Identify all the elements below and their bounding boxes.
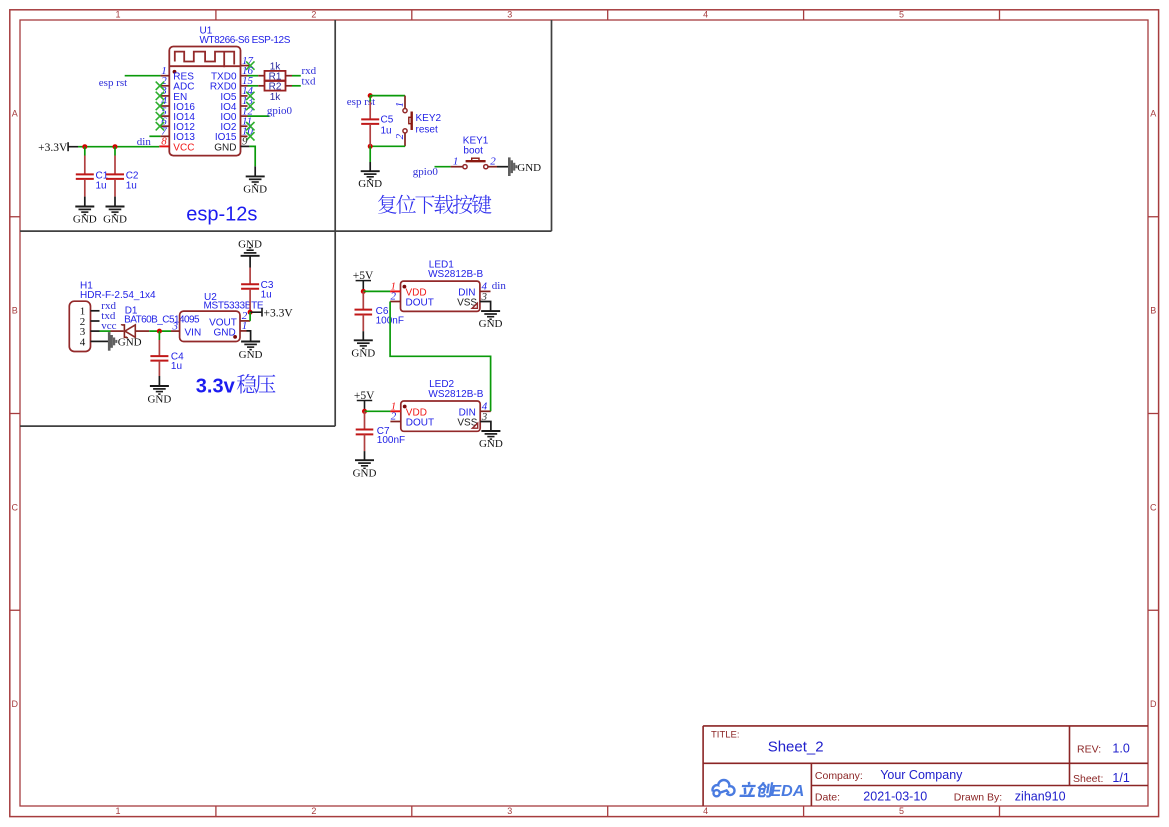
- U1 pin 13 IO4: [241, 105, 248, 107]
- H1 pin 3: [91, 330, 100, 332]
- svg-text:4: 4: [703, 806, 708, 816]
- section partition lines: [20, 20, 552, 426]
- resistor R1: [258, 75, 264, 77]
- power flag +3.3V at U2: [250, 311, 262, 313]
- junction at C1: [82, 144, 87, 149]
- wire gpio0 to KEY1: [435, 166, 451, 168]
- capacitor C7 100nF: [364, 411, 366, 429]
- U1 antenna baseline: [169, 65, 240, 67]
- U1 pin 1 marker dot: [173, 70, 177, 74]
- ground under C4: [150, 385, 169, 387]
- section title reset-download-keys (CJK): [378, 195, 397, 214]
- H1 pin 1: [91, 310, 100, 312]
- svg-text:GND: GND: [517, 162, 541, 174]
- svg-text:EDA: EDA: [771, 783, 805, 800]
- KEY1 pin1 lead: [451, 166, 463, 168]
- U1 pin 2 ADC: [160, 85, 169, 87]
- wire pin12 to gpio0: [248, 115, 270, 117]
- svg-text:5: 5: [899, 806, 904, 816]
- svg-text:GND: GND: [353, 467, 377, 479]
- svg-text:VCC: VCC: [173, 142, 194, 153]
- ground right of KEY1: [508, 157, 511, 176]
- svg-text:2: 2: [311, 806, 316, 816]
- svg-text:A: A: [1150, 109, 1156, 119]
- U1 chip body outline: [169, 47, 240, 156]
- svg-text:1u: 1u: [261, 290, 272, 301]
- wire LED1 VSS to ground: [480, 302, 491, 312]
- wire R1 to rxd: [292, 75, 301, 77]
- ground under C5: [361, 170, 380, 172]
- svg-text:esp rst: esp rst: [99, 77, 127, 89]
- frame row ticks left: [10, 216, 20, 218]
- wire +3.3V junction to VOUT: [249, 312, 251, 321]
- LED1 pin 2 DOUT: [390, 301, 400, 303]
- svg-text:D: D: [12, 699, 19, 709]
- capacitor C4 1u: [158, 340, 160, 356]
- svg-text:2: 2: [391, 291, 397, 303]
- svg-text:1u: 1u: [96, 181, 107, 192]
- svg-text:2: 2: [394, 133, 406, 139]
- svg-text:3.3v: 3.3v: [196, 375, 236, 397]
- svg-text:Date:: Date:: [815, 792, 840, 804]
- ground under C2: [106, 206, 125, 208]
- pushbutton KEY1 boot: [466, 160, 486, 162]
- U1 no-connect X pins 14,13,11,10: [246, 92, 254, 100]
- svg-text:2: 2: [311, 10, 316, 20]
- capacitor C5 1u: [369, 96, 371, 102]
- capacitor C1 1u: [84, 156, 86, 175]
- wire R2 to txd: [292, 85, 301, 87]
- U1 pin 4 IO16: [160, 105, 169, 107]
- U2 pin1 marker dot: [233, 335, 237, 339]
- svg-text:REV:: REV:: [1077, 744, 1101, 756]
- LED1 pin 1 VDD: [390, 290, 400, 292]
- wire +5V to LED1 VDD: [363, 290, 390, 292]
- LED1 pin1 marker dot: [403, 285, 407, 289]
- LED1 polarity triangle: [472, 303, 477, 308]
- U1 pin 11 IO2: [241, 125, 248, 127]
- wire C5 to ground: [369, 146, 371, 162]
- schottky diode D1: [111, 330, 124, 332]
- svg-text:GND: GND: [118, 337, 142, 349]
- svg-text:1k: 1k: [270, 61, 282, 72]
- LED2 pin 2 DOUT: [390, 421, 400, 423]
- capacitor C2 1u: [114, 156, 116, 175]
- U2 pin 1 GND: [240, 330, 247, 332]
- svg-text:WT8266-S6 ESP-12S: WT8266-S6 ESP-12S: [200, 35, 291, 46]
- svg-text:MST5333BTE: MST5333BTE: [204, 301, 264, 312]
- svg-text:8: 8: [161, 136, 167, 148]
- junction at C6 +5V: [361, 289, 366, 294]
- svg-text:2021-03-10: 2021-03-10: [863, 790, 927, 804]
- svg-text:WS2812B-B: WS2812B-B: [428, 269, 483, 280]
- title block outline: [703, 726, 1148, 806]
- U1 pin 5 IO14: [160, 115, 169, 117]
- LED2 pin 4 DIN: [480, 410, 491, 412]
- junction at C2: [113, 144, 118, 149]
- C6 ground lead: [362, 331, 364, 340]
- junction at C7 +5V: [362, 409, 367, 414]
- svg-text:esp-12s: esp-12s: [186, 204, 257, 226]
- U1 pin 7 IO13: [160, 135, 169, 137]
- svg-text:1k: 1k: [270, 92, 282, 103]
- ground under LED1 VSS: [481, 310, 500, 312]
- svg-text:Drawn By:: Drawn By:: [954, 792, 1002, 804]
- U1 no-connect X pins 2-6: [156, 82, 164, 90]
- svg-text:txd: txd: [302, 76, 317, 88]
- wire pin15 to R2: [248, 85, 259, 87]
- U1 pin 10 IO15: [241, 135, 248, 137]
- wire pin16 to R1: [248, 75, 259, 77]
- junction esp rst top: [368, 93, 373, 98]
- ground under U1 pin9: [246, 175, 265, 177]
- capacitor C6 100nF: [362, 291, 364, 309]
- svg-text:GND: GND: [351, 348, 375, 360]
- svg-text:5: 5: [899, 10, 904, 20]
- svg-text:2: 2: [490, 155, 496, 167]
- wire KEY2 bottom: [370, 145, 405, 147]
- svg-text:BAT60B_C514095: BAT60B_C514095: [124, 314, 200, 325]
- wire C4 drop: [158, 331, 160, 340]
- wire LED1 DOUT to LED2 DIN: [390, 302, 491, 412]
- svg-text:reset: reset: [416, 124, 438, 135]
- svg-text:gpio0: gpio0: [413, 166, 439, 178]
- svg-text:1: 1: [453, 155, 459, 167]
- svg-text:TITLE:: TITLE:: [711, 729, 740, 740]
- svg-text:C: C: [1150, 502, 1157, 512]
- wire esp rst to pin1: [125, 75, 161, 77]
- svg-text:A: A: [12, 109, 18, 119]
- wire din to pin7: [149, 135, 160, 137]
- U1 pin 17 (NC): [241, 65, 250, 67]
- svg-text:4: 4: [80, 336, 86, 348]
- connector H1 body: [69, 301, 90, 351]
- svg-text:Your Company: Your Company: [880, 768, 963, 782]
- LED2 polarity triangle: [472, 423, 477, 428]
- wire D1 to VIN: [149, 330, 171, 332]
- svg-text:B: B: [12, 306, 18, 316]
- U2 pin 2 VOUT: [240, 320, 250, 322]
- svg-text:GND: GND: [103, 214, 127, 226]
- svg-text:Company:: Company:: [815, 770, 863, 782]
- U1 antenna meander: [175, 52, 234, 65]
- svg-text:1u: 1u: [381, 125, 392, 136]
- svg-text:D: D: [1150, 699, 1157, 709]
- EasyEDA logo cloud: [711, 779, 735, 796]
- svg-text:1u: 1u: [126, 181, 137, 192]
- H1 pin 4: [91, 340, 100, 342]
- wire C1 drop: [84, 147, 86, 156]
- svg-text:4: 4: [703, 10, 708, 20]
- C4 ground lead: [158, 376, 160, 386]
- svg-text:GND: GND: [214, 142, 236, 153]
- ground under C1: [75, 206, 94, 208]
- C2 ground lead: [114, 197, 116, 207]
- frame row ticks right: [1148, 216, 1159, 218]
- ground under C7: [355, 459, 374, 461]
- svg-text:1: 1: [115, 806, 120, 816]
- svg-text:C: C: [12, 502, 19, 512]
- resistor R2: [258, 85, 264, 87]
- LED1 pin 4 DIN: [480, 290, 491, 292]
- junction at +3.3V: [248, 310, 253, 315]
- svg-text:+3.3V: +3.3V: [38, 142, 68, 154]
- wire KEY1 to ground: [497, 166, 510, 168]
- svg-text:1u: 1u: [171, 361, 182, 372]
- svg-text:3: 3: [172, 320, 179, 332]
- wire LED2 VSS to ground: [480, 422, 491, 432]
- KEY2 pin2 lead: [404, 133, 406, 146]
- svg-text:Sheet:: Sheet:: [1073, 773, 1103, 785]
- U1 pin 1 RES: [160, 75, 169, 77]
- svg-text:DOUT: DOUT: [406, 298, 434, 309]
- svg-text:GND: GND: [243, 184, 267, 196]
- svg-text:1: 1: [394, 102, 406, 108]
- svg-text:Sheet_2: Sheet_2: [768, 739, 824, 756]
- wire esp rst top to KEY2: [370, 95, 405, 97]
- LED2 pin 1 VDD: [390, 410, 400, 412]
- LED2 body: [401, 401, 480, 431]
- wire vcc to D1: [100, 330, 111, 332]
- LED1 body: [401, 281, 480, 311]
- U1 pin 16 TXD0: [241, 75, 248, 77]
- svg-text:B: B: [1150, 306, 1156, 316]
- KEY1 pin2 lead: [488, 166, 497, 168]
- U2 pin 3 VIN: [171, 330, 180, 332]
- wire +5V to LED2 VDD: [365, 410, 391, 412]
- svg-text:R2: R2: [269, 81, 282, 92]
- wire U2 GND to ground: [247, 331, 251, 342]
- svg-text:GND: GND: [147, 393, 171, 405]
- svg-text:boot: boot: [463, 146, 483, 157]
- svg-text:GND: GND: [213, 328, 235, 339]
- C7 ground lead: [364, 451, 366, 460]
- svg-text:+3.3V: +3.3V: [264, 307, 294, 319]
- U1 pin 3 EN: [160, 95, 169, 97]
- svg-text:GND: GND: [358, 178, 382, 190]
- svg-text:zihan910: zihan910: [1015, 790, 1066, 804]
- regulator U2 body: [180, 311, 240, 341]
- U1 pin 12 IO0: [241, 115, 248, 117]
- U1 pin 6 IO12: [160, 125, 169, 127]
- LED2 pin1 marker dot: [403, 405, 407, 409]
- svg-text:gpio0: gpio0: [267, 105, 293, 117]
- junction at C4: [157, 329, 162, 334]
- U1 pin 14 IO5: [241, 95, 248, 97]
- KEY2 pin1 lead: [404, 96, 406, 109]
- svg-text:GND: GND: [239, 349, 263, 361]
- svg-text:din: din: [492, 280, 507, 292]
- svg-text:2: 2: [391, 411, 397, 423]
- svg-text:GND: GND: [479, 438, 503, 450]
- H1 pin 2: [91, 320, 100, 322]
- frame column ticks top: [215, 10, 217, 20]
- svg-text:GND: GND: [238, 239, 262, 251]
- svg-text:WS2812B-B: WS2812B-B: [428, 389, 483, 400]
- ground under C6: [354, 339, 373, 341]
- pushbutton KEY2 reset: [411, 112, 413, 131]
- svg-text:1.0: 1.0: [1112, 742, 1129, 756]
- svg-text:DOUT: DOUT: [406, 418, 434, 429]
- svg-text:GND: GND: [73, 214, 97, 226]
- svg-text:1: 1: [242, 320, 248, 332]
- junction esp rst bottom: [368, 144, 373, 149]
- wire C2 drop: [114, 147, 116, 156]
- svg-text:HDR-F-2.54_1x4: HDR-F-2.54_1x4: [80, 290, 156, 301]
- wire U1 pin9 to ground: [241, 145, 250, 147]
- svg-text:100nF: 100nF: [377, 435, 405, 446]
- C1 ground lead: [84, 197, 86, 207]
- wire +3.3V rail to U1 VCC: [78, 146, 159, 148]
- svg-text:C5: C5: [381, 114, 394, 125]
- svg-text:1/1: 1/1: [1112, 771, 1129, 785]
- frame column ticks bottom: [215, 806, 217, 817]
- svg-text:KEY2: KEY2: [416, 113, 442, 124]
- capacitor C3 1u: [249, 268, 251, 285]
- U1 pin 8 VCC (power): [159, 145, 169, 147]
- svg-text:3: 3: [507, 806, 512, 816]
- ground under LED2 VSS: [481, 430, 500, 432]
- U1 pin 15 RXD0: [241, 85, 248, 87]
- ground under U2 pin1: [241, 341, 260, 343]
- svg-text:3: 3: [507, 10, 512, 20]
- svg-text:1: 1: [115, 10, 120, 20]
- svg-text:GND: GND: [479, 318, 503, 330]
- svg-text:VIN: VIN: [185, 328, 202, 339]
- ground right of H1 pin4: [100, 340, 110, 342]
- svg-text:vcc: vcc: [101, 320, 116, 332]
- EasyEDA logo text 立创: [739, 782, 757, 797]
